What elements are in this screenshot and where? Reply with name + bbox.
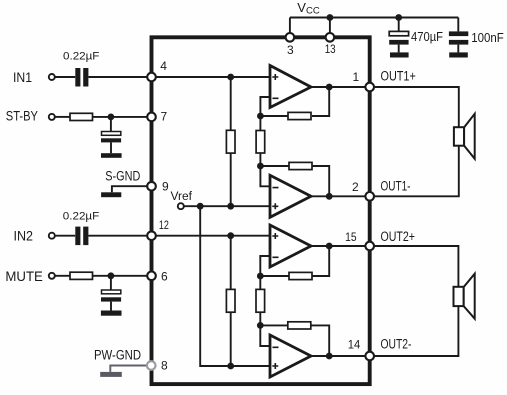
junction U1B feedback node (257, 163, 264, 170)
wire R3 to Vref line (230, 153, 232, 206)
op-amp U1C (270, 225, 311, 267)
wire stem to C4 (110, 276, 112, 290)
svg-text:7: 7 (161, 109, 168, 123)
pin 6 (147, 272, 156, 281)
junction U1D output (326, 353, 333, 360)
svg-text:MUTE: MUTE (5, 269, 43, 284)
capacitor C4 (101, 290, 121, 311)
resistor R1 (70, 113, 93, 120)
resistor bias R3 (vertical) (226, 130, 235, 153)
wire IN1 input line (55, 76, 75, 78)
junction Vref/left rail (197, 203, 204, 210)
junction U1C output (326, 243, 333, 250)
svg-text:6: 6 (161, 270, 168, 284)
junction VCC/pin13 (327, 14, 334, 21)
wire Vref line (184, 205, 270, 207)
capacitor C5 470uF (389, 31, 408, 52)
IC U1 outline box (152, 37, 370, 384)
pin 14 (365, 352, 374, 361)
pin 8 (gray) (147, 361, 156, 370)
wire speaker LS1 loop (370, 87, 459, 196)
wire feedback to R7 (260, 165, 289, 167)
svg-text:OUT2+: OUT2+ (381, 229, 416, 244)
capacitor C6 100nF (449, 31, 468, 52)
junction Vref/bias rail (227, 203, 234, 210)
svg-text:IN1: IN1 (13, 70, 32, 85)
wire pin12 to op-amp U1C + input (152, 235, 271, 237)
capacitor C3 0.22uF (75, 227, 88, 246)
wire C1 to pin4 (89, 76, 152, 78)
wire stem to C2 (110, 117, 112, 132)
resistor R2 (70, 272, 93, 279)
pin 2 (365, 192, 374, 201)
ground S-GND (101, 192, 121, 197)
junction U1C feedback node (257, 273, 264, 280)
resistor R8 feedback U1C (289, 272, 312, 279)
resistor R6 (vertical divider) (256, 131, 265, 154)
ground for C6 (449, 52, 468, 57)
svg-text:IN2: IN2 (14, 229, 34, 244)
svg-text:2: 2 (352, 180, 359, 194)
wire IN2 input line (55, 235, 75, 237)
wire MUTE line (55, 275, 70, 277)
terminal IN1 (49, 74, 55, 80)
resistor R7 feedback U1B (289, 162, 312, 169)
wire R2 to pin6 (93, 275, 152, 277)
terminal MUTE (49, 273, 55, 279)
wire R5 to output (312, 87, 329, 116)
terminal Vref (178, 203, 184, 209)
junction on ST-BY line (108, 114, 115, 121)
wire R9 to U1D node (259, 312, 261, 325)
wire feedback to R8 (260, 275, 289, 277)
wire Vref rail down (200, 206, 270, 366)
svg-text:1: 1 (353, 70, 360, 84)
resistor R5 feedback U1A (288, 112, 311, 119)
wire C3 to pin12 (89, 235, 152, 237)
wire R6 to U1B node (259, 153, 261, 166)
wire R10 to output (311, 325, 329, 356)
junction VCC/C5 (395, 14, 402, 21)
wire U1D output to pin14 (311, 355, 370, 357)
resistor bias R4 (vertical) (226, 289, 235, 312)
svg-text:470µF: 470µF (411, 29, 443, 44)
pin 12 (147, 231, 156, 240)
svg-text:100nF: 100nF (471, 30, 504, 45)
wire VCC rail (290, 18, 458, 34)
wire pin9 to ground (112, 186, 152, 192)
svg-text:OUT1-: OUT1- (381, 178, 411, 193)
speaker LS2 (454, 274, 475, 319)
svg-text:9: 9 (162, 179, 169, 193)
svg-text:14: 14 (348, 338, 361, 352)
wire R4 to Vref node (230, 312, 232, 366)
terminal ST-BY (49, 114, 55, 120)
ground for C5 (390, 52, 409, 57)
pin 4 (147, 73, 156, 82)
svg-text:ST-BY: ST-BY (6, 108, 38, 123)
resistor R10 feedback U1D (288, 322, 311, 329)
junction U1B output (326, 193, 333, 200)
ground PW-GND (gray) (100, 372, 122, 377)
op-amp U1B (270, 175, 311, 217)
wire node to R9 (259, 276, 261, 289)
wire speaker LS2 loop (370, 246, 459, 356)
wire pin4 to op-amp U1A + input (152, 76, 271, 78)
ground for C2 (101, 153, 122, 158)
pin 13 (326, 33, 335, 42)
pin 3 (286, 33, 295, 42)
wire R7 to output (312, 166, 329, 196)
junction on MUTE line (108, 272, 115, 279)
wire feedback to R5 (260, 115, 289, 117)
op-amp U1A (270, 66, 311, 108)
junction IN1/bias (227, 74, 234, 81)
svg-text:Vref: Vref (171, 191, 193, 203)
junction U1A output (326, 84, 333, 91)
wire bias rail upper (230, 77, 232, 130)
svg-text:OUT2-: OUT2- (381, 337, 412, 352)
junction op4+ line (227, 363, 234, 370)
wire pin8 to ground (gray) (110, 366, 151, 372)
terminal IN2 (49, 233, 55, 239)
svg-text:4: 4 (160, 59, 167, 73)
wire U1B output to pin2 (311, 195, 370, 197)
pin 9 (147, 182, 156, 191)
svg-text:S-GND: S-GND (105, 169, 140, 184)
speaker LS1 (454, 114, 475, 159)
wire R8 to output (312, 246, 329, 276)
svg-text:8: 8 (161, 359, 168, 373)
pin 15 (365, 242, 374, 251)
capacitor C1 0.22uF (75, 68, 88, 87)
resistor R9 (vertical divider) (256, 289, 265, 312)
svg-text:0.22µF: 0.22µF (63, 211, 100, 223)
wire U1C output to pin15 (311, 245, 370, 247)
junction U1D feedback node (257, 322, 264, 329)
svg-text:OUT1+: OUT1+ (381, 69, 416, 84)
wire U1C inverting input (260, 256, 270, 276)
svg-text:13: 13 (325, 42, 336, 56)
pin 1 (365, 83, 374, 92)
wire U1A output to pin1 (311, 86, 370, 88)
junction U1A feedback node (257, 113, 264, 120)
wire node to R6 (259, 116, 261, 131)
capacitor C2 (101, 132, 121, 154)
wire feedback to R10 (260, 324, 288, 326)
wire R1 to pin7 (93, 116, 152, 118)
wire U1B inverting input (260, 166, 270, 186)
op-amp U1D (270, 335, 311, 377)
wire ST-BY line (55, 116, 70, 118)
wire U1A inverting input (260, 97, 270, 116)
ground for C4 (101, 311, 122, 316)
svg-text:15: 15 (345, 230, 357, 244)
junction IN2/bias (227, 232, 234, 239)
svg-text:12: 12 (159, 218, 169, 232)
svg-text:PW-GND: PW-GND (94, 348, 141, 363)
pin 7 (147, 113, 156, 122)
wire U1D inverting input (260, 325, 270, 346)
svg-text:3: 3 (287, 43, 294, 57)
svg-text:0.22µF: 0.22µF (63, 51, 100, 63)
wire bias rail lower (230, 236, 232, 290)
